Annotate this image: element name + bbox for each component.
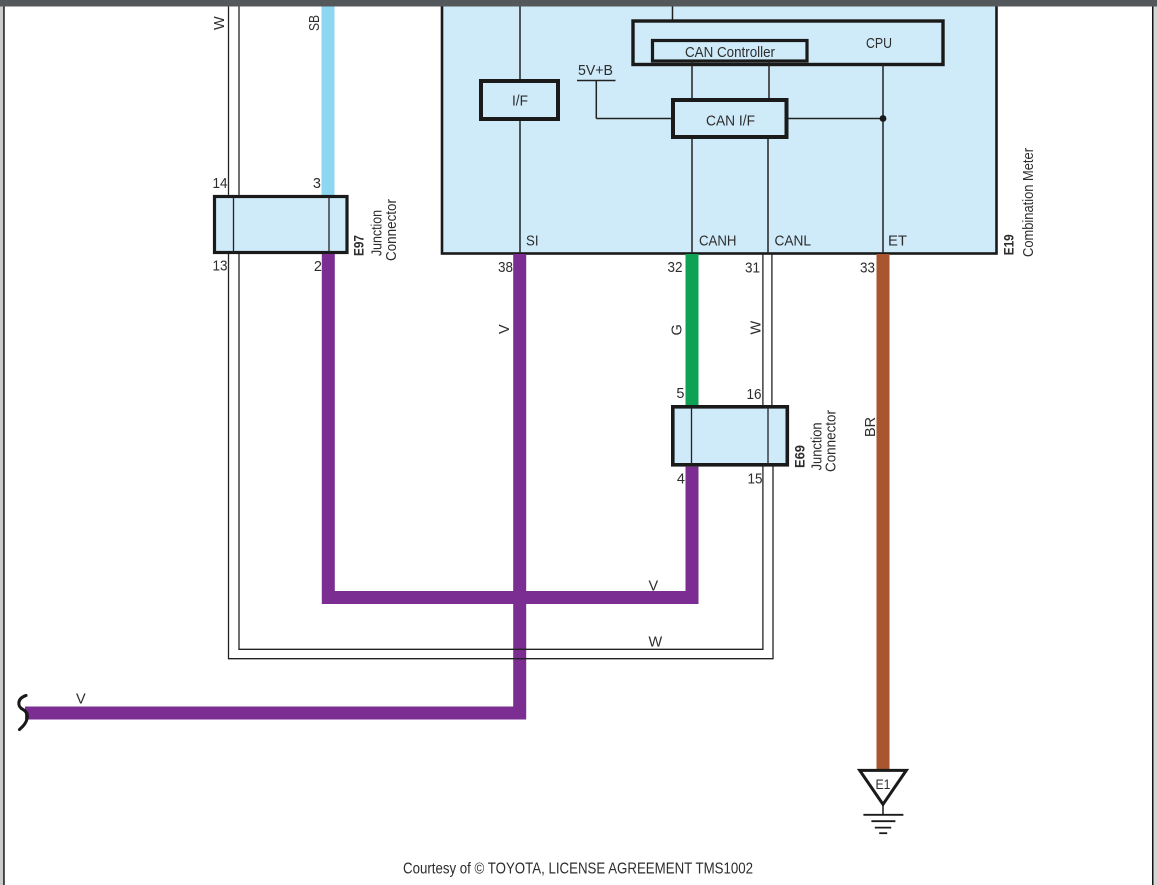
wire CAN Controller to CAN I/F (left) [691, 61, 693, 98]
svg-text:Connector: Connector [822, 410, 839, 472]
viewer right gray margin [1154, 7, 1157, 885]
svg-text:38: 38 [498, 260, 513, 276]
wire BR from ET pin 33 to ground [877, 254, 890, 771]
svg-text:5: 5 [676, 386, 684, 402]
svg-text:V: V [649, 579, 659, 595]
wire CAN I/F to ET node [789, 118, 884, 120]
svg-text:CAN Controller: CAN Controller [685, 44, 775, 61]
svg-text:13: 13 [213, 259, 228, 275]
svg-text:W: W [212, 16, 228, 30]
svg-text:15: 15 [748, 472, 763, 488]
wire CANH internal [691, 139, 693, 252]
svg-text:Courtesy of © TOYOTA, LICENSE: Courtesy of © TOYOTA, LICENSE AGREEMENT … [403, 861, 753, 878]
svg-text:E19: E19 [1001, 234, 1017, 255]
svg-text:E69: E69 [792, 445, 808, 468]
svg-text:4: 4 [677, 472, 685, 488]
svg-text:W: W [649, 635, 663, 651]
E97 internal wire line (pin 3-2) [328, 197, 330, 253]
svg-text:2: 2 [314, 259, 322, 275]
svg-text:CPU: CPU [866, 35, 892, 52]
svg-text:CANH: CANH [699, 233, 737, 250]
svg-text:14: 14 [213, 176, 228, 192]
ground stem [882, 805, 884, 815]
wire G (CANH) from pin 32 to E69 pin 5 [686, 254, 699, 405]
svg-text:W: W [749, 321, 765, 335]
wire continuation curl [19, 696, 28, 730]
svg-text:E1: E1 [876, 777, 891, 792]
viewer toolbar bottom strip [0, 0, 1157, 7]
svg-text:CAN I/F: CAN I/F [706, 113, 755, 130]
E97 internal wire line (pin 14-13) [233, 197, 235, 253]
svg-text:I/F: I/F [512, 93, 528, 110]
E69 internal wire line (pin 16-15) [767, 407, 769, 465]
svg-text:Connector: Connector [383, 199, 400, 261]
wire SB [322, 7, 335, 196]
wire SI internal (below I/F) [519, 121, 521, 252]
wire V from SI pin 38 [25, 254, 520, 713]
svg-text:ET: ET [888, 233, 907, 250]
node line to CPU top [672, 7, 674, 22]
wire V from E97 pin 2 to E69 pin 4 [328, 254, 692, 598]
viewer right border line [1152, 7, 1154, 885]
wire CANL internal [767, 139, 769, 252]
svg-text:E97: E97 [351, 235, 367, 256]
viewer left gray margin [0, 7, 3, 885]
svg-text:32: 32 [668, 260, 683, 276]
E69 internal wire line (pin 5-4) [691, 407, 693, 465]
svg-text:V: V [497, 324, 513, 334]
junction dot [880, 115, 887, 122]
svg-text:BR: BR [863, 417, 879, 437]
block CAN Controller [653, 41, 808, 62]
op block CPU [633, 21, 943, 65]
svg-text:G: G [670, 324, 686, 335]
ground bar 3 [875, 827, 891, 829]
wire CAN Controller to CAN I/F (right) [768, 61, 770, 98]
viewer left border line [3, 7, 4, 885]
svg-text:33: 33 [860, 261, 875, 277]
block CAN I/F [673, 100, 787, 137]
svg-text:31: 31 [745, 261, 760, 277]
wire SI internal (above I/F) [519, 7, 521, 80]
svg-text:16: 16 [747, 387, 762, 403]
power symbol 5V+B [577, 81, 671, 119]
svg-text:3: 3 [313, 176, 321, 192]
ground bar 1 [863, 814, 903, 816]
combination meter E19 block [442, 0, 997, 254]
ground E1 triangle [860, 770, 907, 804]
junction connector E97 [215, 197, 348, 253]
svg-text:CANL: CANL [775, 233, 812, 250]
wire ET vertical [882, 64, 884, 252]
svg-text:Combination Meter: Combination Meter [1020, 148, 1037, 257]
wire W (CANL) from pin 31 to E69 pin 16 (double line) [763, 254, 772, 405]
block I/F [481, 81, 558, 119]
junction connector E69 [673, 407, 788, 465]
ground bar 2 [871, 820, 895, 822]
svg-text:SI: SI [526, 233, 539, 250]
wire W loop E97 pin 13 to E69 pin 15 (double line) [229, 254, 774, 659]
svg-text:V: V [76, 692, 86, 708]
wire W top segment (double line) [229, 7, 240, 195]
ground bar 4 [879, 832, 887, 834]
svg-text:5V+B: 5V+B [578, 62, 613, 79]
svg-text:SB: SB [307, 15, 323, 31]
